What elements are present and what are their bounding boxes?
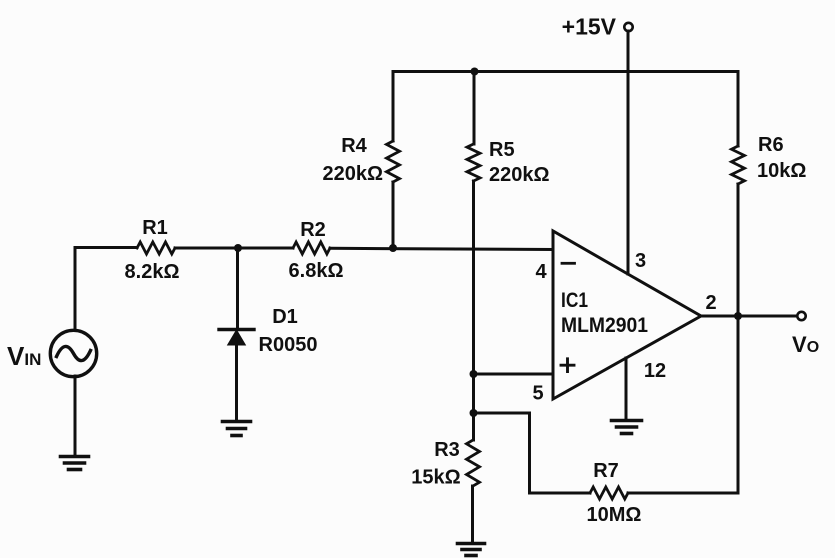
wire main signal from VIN top to R1 (75, 246, 137, 249)
svg-text:R7: R7 (593, 460, 619, 482)
sine symbol inside VIN (57, 346, 91, 360)
node D junction dot (R5/plus-input wire) (470, 370, 478, 378)
svg-text:15kΩ: 15kΩ (411, 467, 460, 489)
op-amp plus input symbol (561, 359, 574, 372)
wire R5 top (473, 72, 476, 145)
svg-text:R2: R2 (300, 219, 326, 241)
svg-text:6.8kΩ: 6.8kΩ (289, 260, 344, 282)
node B junction dot (R2/R4/main wire) (389, 244, 397, 252)
wire R2 to op-amp inverting input (330, 248, 553, 249)
svg-text:R0050: R0050 (259, 334, 318, 356)
op-amp U1 triangle (553, 231, 701, 399)
wire op-amp output to VO (701, 315, 797, 318)
wire op-amp pin 12 to ground (625, 358, 628, 419)
svg-text:R4: R4 (341, 135, 367, 157)
wire plus input (474, 373, 554, 376)
wire R1 to R2 through node A (175, 247, 293, 250)
resistor R1 (137, 242, 175, 254)
wire rail right corner down to R6 (737, 72, 740, 147)
resistor R6 (732, 146, 745, 184)
diode D1 cathode bar (219, 328, 254, 331)
svg-text:R3: R3 (434, 439, 460, 461)
node C junction dot (rail/R5) (471, 68, 479, 76)
resistor R3 (467, 440, 480, 486)
svg-text:IC1: IC1 (561, 289, 588, 312)
node A junction dot (R1/R2/D1) (234, 244, 242, 252)
source VIN circle (50, 330, 96, 376)
node E junction dot (R5/R3/feedback wire) (470, 409, 478, 417)
wire R4 bottom to node B (392, 182, 395, 248)
power +15V terminal circle (624, 23, 632, 31)
wire feedback node E to R7 left corner (474, 413, 530, 493)
wire top rail (393, 70, 738, 73)
resistor R5 (467, 144, 480, 181)
wire node A down to diode D1 (236, 248, 239, 328)
svg-text:5: 5 (532, 383, 543, 405)
svg-text:VIN: VIN (7, 341, 41, 371)
wire corner to R7 (530, 492, 591, 495)
ground below D1 (223, 422, 251, 436)
terminal VO circle (797, 312, 805, 320)
ground below op-amp pin 12 (612, 421, 642, 434)
svg-text:D1: D1 (272, 306, 298, 328)
svg-text:MLM2901: MLM2901 (561, 314, 648, 337)
svg-text:12: 12 (644, 360, 666, 382)
ground below R3 (458, 544, 485, 556)
svg-text:220kΩ: 220kΩ (322, 163, 383, 185)
resistor R2 (293, 242, 330, 254)
wire R5 down through main wire to non-inverting node (472, 181, 475, 413)
svg-text:VO: VO (792, 332, 819, 357)
svg-text:220kΩ: 220kΩ (489, 164, 550, 186)
svg-text:10kΩ: 10kΩ (757, 160, 806, 182)
wire R3 to ground (471, 486, 474, 542)
node F junction dot (output/R6/R7 column) (734, 312, 742, 320)
svg-text:+15V: +15V (562, 14, 617, 40)
svg-text:R6: R6 (758, 134, 784, 156)
wire R6 bottom down through output node to R7 (737, 184, 740, 493)
wire R7 to right column (628, 492, 738, 495)
ground below VIN (61, 457, 89, 470)
svg-text:10MΩ: 10MΩ (587, 504, 642, 526)
diode D1 triangle (229, 331, 245, 345)
resistor R7 (590, 487, 628, 499)
wire R4 branch top rail corner down (392, 72, 395, 142)
svg-text:R5: R5 (489, 139, 515, 161)
wire D1 to ground (235, 344, 238, 420)
wire VIN to ground (74, 376, 77, 455)
wire VIN branch down (74, 248, 77, 331)
resistor R3 top wire from node E (472, 413, 475, 440)
op-amp minus input symbol (562, 262, 575, 265)
resistor R4 (387, 141, 400, 182)
svg-text:2: 2 (705, 292, 716, 314)
svg-text:3: 3 (635, 250, 646, 272)
wire +15V down to op-amp pin 3 (627, 31, 630, 274)
svg-text:R1: R1 (142, 217, 168, 239)
svg-text:8.2kΩ: 8.2kΩ (125, 261, 180, 283)
svg-text:4: 4 (535, 261, 547, 283)
